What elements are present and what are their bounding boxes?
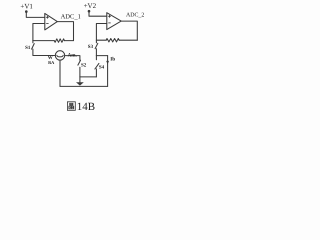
resistor R1 (feedback of U1) <box>54 39 64 42</box>
svg-text:ADC_1: ADC_1 <box>61 14 81 21</box>
node +V1 terminal dot <box>25 10 28 13</box>
svg-text:RA: RA <box>48 60 55 65</box>
switch S1 blade <box>32 44 35 50</box>
wire bottom rail <box>60 85 108 87</box>
op-amp U1 <box>45 13 58 30</box>
svg-text:+V2: +V2 <box>84 2 97 10</box>
wire junction line S2-S4 <box>80 76 97 78</box>
switch S2 blade <box>78 60 81 65</box>
ammeter Am body <box>55 51 64 60</box>
switch S4 blade <box>95 63 99 69</box>
svg-text:S2: S2 <box>81 63 87 69</box>
wire inverting input U1 <box>33 24 45 41</box>
svg-text:S1: S1 <box>25 45 31 51</box>
ground stub wire <box>79 77 81 82</box>
wire +V2 to non-inverting input <box>89 11 107 16</box>
wire ammeter right to S2 <box>65 56 80 61</box>
wire node to switch S3 <box>95 40 97 43</box>
op-amp U2 output wire <box>121 21 137 40</box>
op-amp U2 <box>107 13 121 30</box>
svg-text:14B: 14B <box>77 101 95 113</box>
resistor R2 (feedback of U2) <box>106 39 119 42</box>
wire S1 to ammeter <box>33 49 55 55</box>
wire feedback left segment U1 <box>33 40 54 42</box>
wire inverting input U2 <box>96 24 106 41</box>
wire S3 down to corner <box>95 49 97 56</box>
caption figure glyph 圖 <box>67 102 75 111</box>
wire feedback left segment U2 <box>96 39 106 41</box>
switch S3 blade <box>95 43 98 48</box>
op-amp U1 minus mark <box>46 23 48 25</box>
wire S4 lower to junction line <box>95 69 97 77</box>
wire feedback right segment U1 <box>64 40 73 42</box>
wire corner to Ib branch <box>96 55 107 57</box>
current arrow Ib <box>106 61 109 65</box>
wire ammeter bottom to rail <box>59 60 61 86</box>
ammeter coil mark <box>57 55 63 57</box>
ground <box>76 82 84 85</box>
wire S4 upper stub <box>95 56 97 60</box>
op-amp U1 output wire <box>57 22 73 41</box>
wire S2 to junction line <box>79 67 81 77</box>
wire node to switch S1 <box>32 41 34 43</box>
svg-text:ADC_2: ADC_2 <box>126 13 144 19</box>
svg-text:S3: S3 <box>88 44 94 50</box>
svg-text:Am.: Am. <box>68 52 78 58</box>
node +V2 terminal dot <box>88 10 91 13</box>
svg-text:+V1: +V1 <box>20 2 33 10</box>
op-amp U2 plus mark <box>108 15 111 18</box>
svg-text:Ib: Ib <box>110 56 115 62</box>
op-amp U1 plus mark <box>46 16 49 19</box>
svg-text:S4: S4 <box>99 64 105 70</box>
wire feedback right segment U2 <box>119 39 137 41</box>
op-amp U2 minus mark <box>108 22 110 24</box>
wire Ib branch down to rail <box>107 56 109 87</box>
wire +V1 to non-inverting input <box>26 12 45 18</box>
